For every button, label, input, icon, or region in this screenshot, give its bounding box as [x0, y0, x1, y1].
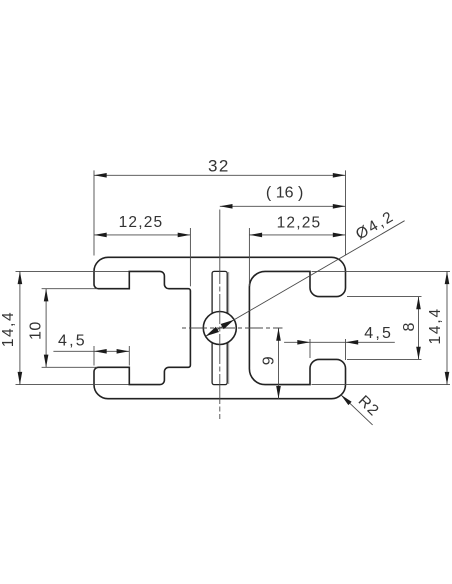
- dimension 4,5 right: [284, 325, 395, 360]
- svg-text:12,25: 12,25: [277, 215, 322, 232]
- svg-text:32: 32: [208, 157, 230, 176]
- svg-text:14,4: 14,4: [0, 311, 17, 347]
- leader R2: [341, 392, 383, 424]
- svg-text:14,4: 14,4: [427, 307, 444, 344]
- dimension 9: [261, 328, 281, 399]
- vertical centerline: [219, 210, 221, 420]
- dimension 14,4 left: [0, 271, 129, 384]
- center slit: [212, 271, 229, 384]
- svg-text:10: 10: [27, 321, 44, 340]
- hole diameter 4.2: [203, 312, 236, 345]
- dimension 14,4 right: [312, 271, 451, 384]
- dimension (16): [220, 185, 346, 209]
- dimension 12,25 right: [249, 215, 345, 287]
- dimension 32: [94, 157, 346, 256]
- svg-text:12,25: 12,25: [119, 214, 164, 231]
- profile cross-section outline: [94, 257, 346, 398]
- leader diameter 4,2: [206, 208, 405, 336]
- svg-text:8: 8: [401, 322, 418, 331]
- svg-text:4,5: 4,5: [364, 325, 393, 342]
- dimension 4,5 left: [53, 333, 129, 366]
- horizontal centerline: [182, 327, 283, 329]
- svg-text:( 16 ): ( 16 ): [266, 185, 303, 202]
- svg-text:9: 9: [261, 356, 278, 365]
- dimension 10: [27, 289, 97, 368]
- svg-text:4,5: 4,5: [58, 333, 87, 350]
- dimension 8: [347, 297, 422, 360]
- dimension 12,25 left: [94, 214, 190, 286]
